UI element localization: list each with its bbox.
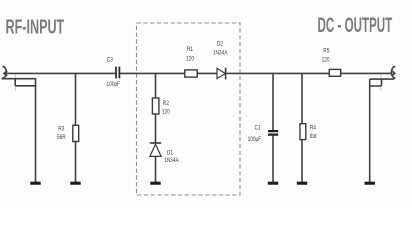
svg-text:R3: R3 [58, 126, 64, 133]
svg-text:R1: R1 [187, 46, 193, 53]
svg-text:R5: R5 [323, 48, 329, 55]
svg-text:120: 120 [162, 109, 170, 116]
svg-text:C1: C1 [254, 125, 260, 132]
svg-text:120: 120 [322, 57, 330, 64]
svg-text:DC - OUTPUT: DC - OUTPUT [318, 14, 393, 38]
svg-text:R4: R4 [310, 125, 317, 132]
svg-text:R2: R2 [163, 101, 169, 108]
svg-text:D2: D2 [217, 41, 223, 48]
svg-text:120: 120 [186, 56, 194, 63]
svg-text:D1: D1 [167, 150, 173, 157]
svg-text:100pF: 100pF [107, 82, 121, 89]
svg-text:56R: 56R [57, 134, 66, 141]
svg-text:tbd: tbd [310, 134, 317, 141]
svg-text:C3: C3 [107, 57, 113, 64]
svg-text:1N34A: 1N34A [213, 50, 228, 57]
svg-text:100µF: 100µF [248, 136, 262, 143]
svg-text:RF-INPUT: RF-INPUT [6, 15, 65, 38]
svg-text:1N34A: 1N34A [164, 158, 179, 165]
